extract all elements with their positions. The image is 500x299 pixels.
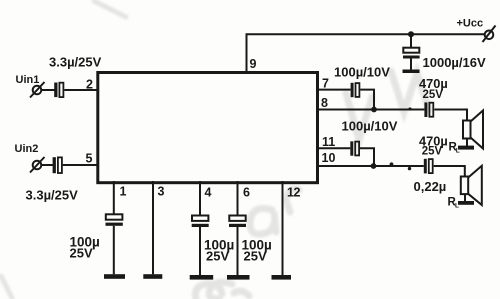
svg-text:1: 1 xyxy=(120,185,127,199)
capacitor C7 470u/25V xyxy=(424,159,433,174)
label RL xyxy=(449,142,460,155)
svg-text:5: 5 xyxy=(86,152,93,166)
terminal +Ucc xyxy=(483,26,496,43)
capacitor C6 100u/10V xyxy=(350,141,359,155)
capacitor C4 100u/10V xyxy=(351,83,360,97)
wire xyxy=(199,227,201,275)
svg-text:11: 11 xyxy=(322,135,335,149)
svg-text:8: 8 xyxy=(321,96,328,110)
wire pin9 xyxy=(246,34,248,72)
svg-text:100µ/10V: 100µ/10V xyxy=(334,65,390,80)
wire pin2 xyxy=(64,89,97,91)
wire xyxy=(466,139,468,147)
svg-text:25V: 25V xyxy=(422,146,443,158)
wire pin5 xyxy=(63,164,97,166)
wire xyxy=(360,148,374,166)
wire xyxy=(410,34,412,48)
ground xyxy=(458,146,474,150)
svg-text:10: 10 xyxy=(322,151,336,165)
svg-text:2: 2 xyxy=(86,78,93,92)
wire pin1 xyxy=(113,181,115,214)
wire xyxy=(464,194,466,201)
junction blob xyxy=(390,162,394,166)
svg-text:3: 3 xyxy=(158,185,165,199)
svg-text:7: 7 xyxy=(322,76,329,90)
capacitor C10 100u/25V xyxy=(229,216,246,228)
wire xyxy=(434,166,465,177)
ground xyxy=(190,275,214,280)
ground xyxy=(104,274,125,279)
svg-text:+Ucc: +Ucc xyxy=(457,18,484,30)
capacitor C3 1000u/16V xyxy=(403,48,420,59)
svg-text:1000µ/16V: 1000µ/16V xyxy=(423,55,486,70)
ground xyxy=(458,201,474,205)
speaker LS1 xyxy=(463,111,483,149)
wire pin3 xyxy=(152,181,154,274)
svg-text:9: 9 xyxy=(250,57,257,71)
svg-text:25V: 25V xyxy=(423,89,444,101)
svg-text:6: 6 xyxy=(243,186,250,200)
label RL xyxy=(448,197,460,210)
wire pin8 xyxy=(316,109,424,111)
svg-text:0,22µ: 0,22µ xyxy=(414,179,447,194)
wire xyxy=(237,227,239,275)
svg-text:25V: 25V xyxy=(244,249,267,264)
wire xyxy=(113,226,115,274)
svg-text:4: 4 xyxy=(205,186,212,200)
speaker LS2 xyxy=(461,166,482,205)
svg-text:L: L xyxy=(456,148,460,155)
wire xyxy=(434,110,467,121)
capacitor C1 3.3u/25V xyxy=(54,83,63,98)
svg-text:100µ/10V: 100µ/10V xyxy=(342,119,398,134)
svg-text:L: L xyxy=(455,203,459,210)
wire pin7 xyxy=(316,89,351,91)
wire pin6 xyxy=(237,181,239,216)
capacitor C9 100u/25V xyxy=(192,216,209,228)
wire pin12 xyxy=(282,181,284,275)
ground xyxy=(227,275,250,280)
op-amp U1 (amplifier IC body) xyxy=(98,73,318,183)
junction node xyxy=(371,163,377,169)
svg-text:3.3µ/25V: 3.3µ/25V xyxy=(49,55,102,70)
svg-text:25V: 25V xyxy=(70,246,93,261)
svg-text:Uin2: Uin2 xyxy=(15,143,39,155)
svg-text:Uin1: Uin1 xyxy=(16,74,40,86)
wire pin11 xyxy=(316,147,350,149)
capacitor C2 3.3u/25V xyxy=(53,157,62,173)
wire xyxy=(410,59,412,71)
ground xyxy=(272,275,292,280)
wire +Ucc rail xyxy=(246,33,485,35)
ground xyxy=(143,274,162,279)
terminal Uin2 xyxy=(30,157,45,173)
wire xyxy=(42,89,55,91)
junction blob xyxy=(408,167,411,170)
wire pin4 xyxy=(199,181,201,216)
junction blob xyxy=(408,107,411,110)
wire xyxy=(360,90,374,110)
capacitor C5 470u/25V xyxy=(424,102,433,117)
wire xyxy=(42,164,53,166)
wire pin10 xyxy=(316,165,424,167)
svg-text:3.3µ/25V: 3.3µ/25V xyxy=(26,188,79,203)
svg-text:12: 12 xyxy=(287,186,300,200)
capacitor C8 100u/25V xyxy=(106,214,123,226)
ground xyxy=(403,70,420,74)
junction node xyxy=(371,107,377,113)
junction node xyxy=(408,31,414,37)
terminal Uin1 xyxy=(30,82,45,98)
svg-text:25V: 25V xyxy=(206,249,229,264)
